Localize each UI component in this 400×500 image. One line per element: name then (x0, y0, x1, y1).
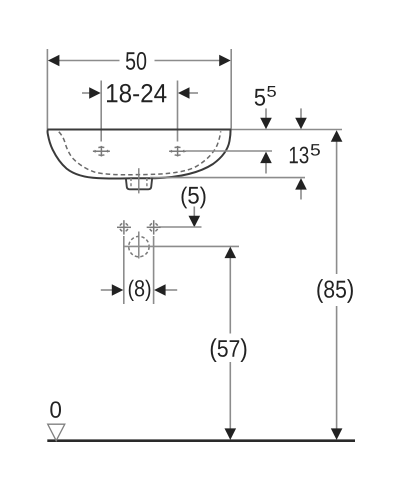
dimension (85): dimension line (336, 141, 338, 430)
washbasin inner bowl dashed outline (59, 131, 221, 175)
label 50 (126, 52, 146, 70)
label (5) (182, 187, 206, 209)
label 0 (datum) (50, 401, 61, 417)
dimension (57): dimension line (229, 257, 231, 429)
datum level triangle symbol (48, 424, 65, 441)
label (8) (129, 280, 151, 301)
dimension 50: arrowheads (48, 55, 231, 67)
dimension (5): arrowhead (189, 216, 201, 228)
dimension (5): leader tail (193, 207, 195, 217)
dimension 13.5: arrowheads (295, 118, 307, 190)
dimension 18-24: arrowheads (89, 87, 189, 99)
dimension 5.5: arrowheads (260, 118, 272, 163)
label (85) (317, 279, 353, 303)
label 5 superscript 5 (255, 89, 265, 106)
right tap hole crosshair (169, 146, 186, 157)
label 13 superscript 5 (290, 147, 309, 164)
dimension 13.5: arrow tails (300, 108, 302, 199)
rim level reference line extension (231, 129, 342, 131)
siphon outlet fitting (126, 178, 152, 190)
basin underside reference line (150, 177, 305, 179)
dimension 5.5: arrow tails (265, 108, 267, 173)
dimension 50: dimension line (59, 60, 220, 62)
waste pipe level reference line (124, 245, 239, 247)
siphon outlet hidden pipe dashed lines (131, 178, 147, 189)
dimension (85): arrowheads (331, 130, 343, 440)
left water supply connection crosshair (117, 220, 131, 234)
dimension 18-24: witness lines (101, 81, 177, 142)
washbasin outer outline (48, 129, 231, 178)
label 18-24 (107, 84, 166, 103)
dimension 18-24: dimension line tails (82, 92, 198, 94)
dimension 50: witness lines (47, 49, 231, 130)
washbasin rim line (47, 129, 231, 131)
left tap hole crosshair (93, 146, 110, 157)
waste pipe vertical centerline (138, 232, 140, 259)
right water supply connection crosshair (147, 220, 161, 234)
floor line (47, 439, 355, 442)
dimension (8): witness lines (124, 236, 154, 304)
dimension (8): dimension line tails (101, 289, 177, 291)
label (57) (211, 338, 247, 362)
drain centerline (138, 168, 140, 193)
tap hole level reference line (186, 150, 272, 152)
waste pipe outlet dashed circle (129, 236, 149, 256)
dimension (8): arrowheads (112, 284, 166, 296)
water supply connection level line (159, 226, 202, 228)
dimension (57): arrowheads (225, 247, 237, 440)
